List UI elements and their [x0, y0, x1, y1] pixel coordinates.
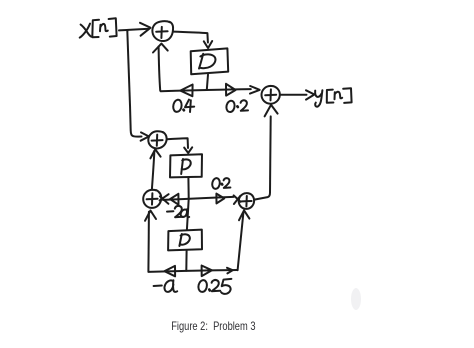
gain 0.25 triangle: [202, 266, 212, 277]
bottom horizontal line: [148, 270, 237, 272]
wire D1 down to feedback line node: [207, 75, 208, 90]
adder A4: [143, 190, 161, 208]
node junction C: [188, 198, 190, 199]
gain -2a triangle: [170, 194, 179, 205]
label 0.2 (middle): [212, 178, 230, 189]
arrowhead into A3: [141, 132, 149, 140]
arrowhead into A5 (x-style): [234, 195, 241, 204]
wire node C down to delay D3: [187, 199, 189, 230]
wire D2 down to middle node: [187, 177, 189, 197]
wire left riser up into A4: [147, 212, 150, 272]
wire D3 down to bottom line: [185, 250, 187, 270]
smudge artifact right edge: [351, 288, 361, 310]
wire A5 right and up to A2: [254, 116, 270, 199]
label 0.4: [173, 100, 194, 112]
label -a: [154, 280, 178, 292]
wire branch from x[n] down to adder A3: [127, 31, 141, 137]
wire A4 up to A3: [152, 151, 155, 189]
arrowhead up into A5: [239, 210, 249, 220]
arrowhead into D1: [204, 41, 212, 48]
label y[n]: [315, 88, 351, 106]
arrowhead into A1: [140, 23, 150, 36]
adder A1: [152, 21, 173, 41]
wire A1 to delay D1: [174, 32, 208, 43]
arrowhead into D2: [184, 147, 192, 153]
arrowhead up into A1: [153, 44, 168, 53]
middle horizontal line: [163, 197, 234, 200]
node branch junction on x[n] wire: [126, 30, 128, 31]
label 0.25: [198, 279, 231, 294]
adder A5: [239, 193, 254, 209]
label x[n]: [80, 18, 117, 37]
arrowhead into adder A2: [250, 86, 260, 94]
wire A2 to y[n] with arrowhead: [280, 94, 306, 96]
adder A3: [148, 131, 166, 148]
gain -a triangle: [165, 266, 176, 276]
small arrowhead on bottom line right segment: [227, 268, 233, 274]
gain 0.4 triangle: [180, 85, 192, 97]
adder A2: [261, 86, 279, 104]
gain 0.2 triangle (middle): [216, 194, 224, 204]
wire right riser up into A5: [238, 212, 244, 271]
label -2a: [167, 206, 189, 217]
label 0.2 (top): [226, 100, 248, 112]
wire feedback up into A1: [159, 47, 161, 91]
arrowhead up into A2 (from A5 riser): [265, 105, 278, 117]
arrowhead up into A4: [145, 211, 156, 221]
delay D1 box: [191, 48, 229, 74]
caption: [0, 319, 426, 333]
delay D2 box: [170, 154, 202, 177]
wire A3 to delay D2: [167, 138, 188, 148]
feedback line y=90: [161, 89, 251, 91]
delay D3 box: [168, 230, 202, 251]
arrowhead into A4 (x-style): [160, 194, 169, 204]
wire x[n] to adder A1: [119, 29, 149, 31]
arrowhead up into A3: [150, 149, 160, 158]
gain 0.2 triangle (top): [226, 84, 236, 96]
